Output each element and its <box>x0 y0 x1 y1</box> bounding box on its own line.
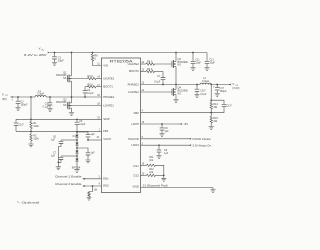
svg-text:CS1: CS1 <box>133 164 139 168</box>
label VIN 6.2V to 28V <box>24 47 50 58</box>
U1 right pin names <box>128 62 140 189</box>
svg-text:3.3µH: 3.3µH <box>37 92 44 96</box>
svg-text:1µF: 1µF <box>91 134 96 136</box>
svg-text:0.1µF: 0.1µF <box>43 105 50 108</box>
svg-text:1µF: 1µF <box>164 130 169 133</box>
capacitor C12 10uF input ch2 <box>204 53 215 71</box>
svg-text:140k: 140k <box>33 125 39 128</box>
wire Q1 drain to rail <box>71 52 73 76</box>
capacitor C6 1uF pump left bottom <box>51 153 77 164</box>
ground CS network <box>161 175 166 181</box>
resistor R10 10k EN2 pulldown <box>87 186 98 200</box>
svg-text:V: V <box>39 47 41 51</box>
svg-text:FB1: FB1 <box>103 129 109 133</box>
ground Q2 source <box>69 108 74 115</box>
svg-text:150µF: 150µF <box>220 90 227 93</box>
svg-text:C10*: C10* <box>18 124 23 127</box>
svg-text:3.3V Always On: 3.3V Always On <box>192 144 211 147</box>
svg-text:Channel 1 Enable: Channel 1 Enable <box>55 175 82 179</box>
svg-text:NS: NS <box>178 64 182 67</box>
svg-text:R4 0: R4 0 <box>88 75 94 78</box>
capacitor C11 10uF input ch2 <box>190 52 201 71</box>
svg-text:VIN: VIN <box>103 63 108 67</box>
svg-text:10µF: 10µF <box>195 61 201 64</box>
wire Q4 drain to phase2 <box>175 85 177 90</box>
wire Q2 drain to phase node <box>71 97 73 103</box>
node VIN input rail <box>50 52 207 54</box>
svg-text:FB2: FB2 <box>134 111 140 115</box>
svg-text:BOOT2: BOOT2 <box>129 69 139 73</box>
resistor R12 10k CS2 <box>141 168 165 177</box>
resistor R14 39k <box>210 103 218 117</box>
resistor R1 140k <box>30 122 40 134</box>
wire FB2 <box>141 112 212 114</box>
svg-text:3.3µH: 3.3µH <box>202 79 209 83</box>
wire FB1 row <box>16 130 102 132</box>
svg-text:NS: NS <box>178 92 182 95</box>
svg-text:PHASE2: PHASE2 <box>128 83 140 87</box>
resistor R11 10k CS1 <box>141 156 164 175</box>
svg-text:1µF: 1µF <box>164 152 169 155</box>
svg-text:0.1µF: 0.1µF <box>87 92 94 95</box>
svg-text:EN1: EN1 <box>103 177 109 181</box>
wire SKIP row <box>16 118 102 120</box>
svg-text:PGOOD Indicator: PGOOD Indicator <box>192 138 211 141</box>
svg-text:V: V <box>2 92 4 96</box>
svg-text:EN2: EN2 <box>103 184 109 188</box>
svg-text:Channel 2 Enable: Channel 2 Enable <box>55 182 82 186</box>
svg-text:CS2: CS2 <box>133 173 139 177</box>
capacitor C10* feedforward <box>14 119 24 131</box>
svg-text:PHASE1: PHASE1 <box>103 95 115 99</box>
svg-text:PGOOD: PGOOD <box>128 137 139 141</box>
svg-text:10µF: 10µF <box>209 61 215 64</box>
wire VCC5 pin <box>87 139 101 141</box>
label Channel 2 Enable <box>55 182 85 187</box>
wire EN2 <box>85 185 102 187</box>
diode D1 BAT254 stack <box>72 135 81 173</box>
resistor R8 0 (UGATE2) <box>141 61 173 66</box>
svg-text:R8 0: R8 0 <box>147 61 153 64</box>
svg-text:0.1µF: 0.1µF <box>200 93 207 96</box>
capacitor C7 0.1uF bootstrap ch2 <box>154 72 165 86</box>
wire GND exposed pad <box>141 184 214 187</box>
resistor R9 0 (BOOT2) <box>141 68 164 73</box>
label VO2 3.3V <box>229 82 240 90</box>
label VO1 5V output <box>2 92 35 100</box>
svg-text:LDO5: LDO5 <box>131 122 139 126</box>
svg-text:6.2V to 28V: 6.2V to 28V <box>24 53 47 57</box>
svg-text:NS: NS <box>63 104 67 107</box>
wire Q3 drain to rail <box>175 52 177 62</box>
wire PHASE2 <box>141 84 201 86</box>
transistor Q3 BSC0906NS high-side ch2 <box>172 58 188 68</box>
capacitor C1 10uF <box>52 52 64 66</box>
svg-text:UGATE2: UGATE2 <box>128 62 140 66</box>
ground pump left rail <box>56 167 61 170</box>
capacitor C2 150uF output ch1 <box>12 96 28 110</box>
capacitor C17 150uF output ch2 <box>213 84 227 97</box>
wire Q1 source to phase node <box>71 81 73 97</box>
svg-text:C13*: C13* <box>226 105 231 108</box>
inductor L1 3.3uH <box>35 90 46 97</box>
svg-text:BOOT1: BOOT1 <box>103 85 113 89</box>
capacitor C4 0.1uF bootstrap ch1 <box>83 87 94 98</box>
svg-text:100k: 100k <box>33 138 39 141</box>
wire Q3 source to phase2 <box>175 67 177 85</box>
svg-text:SKIP: SKIP <box>103 117 110 121</box>
capacitor C15 1uF pump right bottom <box>77 148 95 163</box>
capacitor C9 1uF LDO3 <box>156 145 168 158</box>
wire EN1 <box>85 178 102 180</box>
resistor R6 0 (rail to VIN pin) <box>91 52 101 66</box>
svg-text:+5V: +5V <box>183 122 188 126</box>
svg-text:R5 0: R5 0 <box>88 83 94 86</box>
wire PGOOD <box>141 138 212 141</box>
svg-text:UGATE1: UGATE1 <box>103 77 115 81</box>
label Channel 1 Enable <box>55 175 85 180</box>
capacitor C16 0.1uF phase2 snubber <box>194 84 207 98</box>
resistor R5 0 (BOOT1) <box>85 83 102 88</box>
svg-text:R9 0: R9 0 <box>147 68 153 71</box>
svg-text:NS: NS <box>63 77 67 80</box>
transistor Q4 BSC0906NS low-side ch2 <box>172 87 188 96</box>
svg-text:GND: GND <box>132 185 138 189</box>
wire PHASE1 <box>46 96 101 98</box>
svg-text:1µF: 1µF <box>91 152 96 154</box>
capacitor C8 1uF LDO5 <box>159 124 169 136</box>
ground exposed pad <box>210 188 215 193</box>
U1 left pin names <box>103 63 115 187</box>
wire VOUT1 to divider <box>30 96 32 121</box>
wire LGATE2 to Q4 gate <box>141 91 173 93</box>
wire LDO5 +5V <box>141 122 189 126</box>
svg-text:BAT254: BAT254 <box>72 166 81 169</box>
op-amp U1 RT8205A controller IC body <box>102 58 141 193</box>
svg-text:*: Optional: *: Optional <box>17 200 40 204</box>
svg-text:LGATE1: LGATE1 <box>103 104 114 108</box>
svg-text:(5V): (5V) <box>2 97 7 101</box>
svg-text:150µF: 150µF <box>20 103 28 106</box>
svg-text:LGATE2: LGATE2 <box>128 90 139 94</box>
svg-text:21 (Exposed Pad): 21 (Exposed Pad) <box>143 184 168 187</box>
capacitor C5 1uF pump left top <box>51 137 77 167</box>
inductor L2 3.3uH <box>200 77 211 85</box>
svg-text:1µF: 1µF <box>51 140 56 142</box>
resistor R4 0 (UGATE1) <box>68 75 102 80</box>
wire LDO3 3.3V always on <box>141 144 212 147</box>
capacitor C3* 0.1uF phase snubber <box>43 96 53 111</box>
svg-text:VCC5: VCC5 <box>103 137 111 141</box>
transistor Q1 BSC0906NS high-side <box>56 71 71 82</box>
transistor Q2 BSC0906NS low-side <box>56 98 71 109</box>
svg-text:V: V <box>232 82 234 86</box>
svg-text:10µF: 10µF <box>58 59 65 63</box>
svg-text:0.1µF: 0.1µF <box>154 81 161 84</box>
ground Q4 source <box>173 95 178 103</box>
svg-text:(3.3V): (3.3V) <box>232 86 239 90</box>
capacitor CP hang 1uF <box>75 118 86 134</box>
wire VOUT2 to divider R14 <box>210 84 212 103</box>
capacitor C13* across R14 <box>210 99 231 112</box>
resistor R15 20k <box>209 117 219 130</box>
svg-text:2.2µF: 2.2µF <box>79 124 86 126</box>
svg-text:1µF: 1µF <box>51 156 56 158</box>
capacitor C14 1uF pump right top <box>76 131 95 140</box>
wire VOUT2 <box>211 84 231 86</box>
resistor R2 100k <box>28 134 39 147</box>
svg-text:LDO3: LDO3 <box>131 143 139 147</box>
wire LGATE1 to Q2 gate <box>68 105 102 107</box>
